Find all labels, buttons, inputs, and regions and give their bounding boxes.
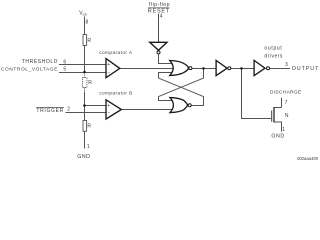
svg-text:OUTPUT: OUTPUT (292, 66, 319, 72)
svg-text:−: − (107, 111, 110, 117)
svg-text:8: 8 (86, 20, 89, 26)
svg-text:002aaa405: 002aaa405 (297, 156, 319, 161)
svg-text:TRIGGER: TRIGGER (36, 108, 64, 114)
svg-text:N: N (285, 113, 289, 119)
svg-text:+: + (107, 103, 110, 109)
svg-text:GND: GND (271, 133, 284, 139)
svg-text:comparator B: comparator B (99, 90, 133, 95)
svg-text:R: R (88, 80, 92, 86)
svg-text:−: − (107, 70, 110, 76)
svg-text:VDD: VDD (79, 11, 88, 17)
svg-text:3: 3 (285, 62, 288, 68)
svg-text:flip-flop: flip-flop (149, 2, 170, 8)
svg-text:comparator A: comparator A (99, 50, 133, 55)
svg-text:output: output (264, 45, 282, 51)
svg-text:7: 7 (285, 100, 288, 106)
svg-text:DISCHARGE: DISCHARGE (270, 90, 302, 96)
svg-text:2: 2 (67, 107, 70, 113)
svg-text:5: 5 (63, 66, 66, 72)
svg-text:+: + (107, 62, 110, 68)
svg-text:6: 6 (63, 60, 66, 66)
svg-text:drivers: drivers (264, 53, 283, 59)
svg-text:GND: GND (77, 154, 90, 160)
svg-text:1: 1 (282, 127, 285, 133)
svg-text:R: R (87, 38, 91, 44)
svg-text:R: R (87, 124, 91, 130)
svg-text:THRESHOLD: THRESHOLD (22, 59, 58, 65)
svg-text:CONTROL_VOLTAGE: CONTROL_VOLTAGE (1, 66, 58, 72)
svg-text:4: 4 (160, 14, 163, 20)
svg-text:1: 1 (87, 144, 90, 150)
